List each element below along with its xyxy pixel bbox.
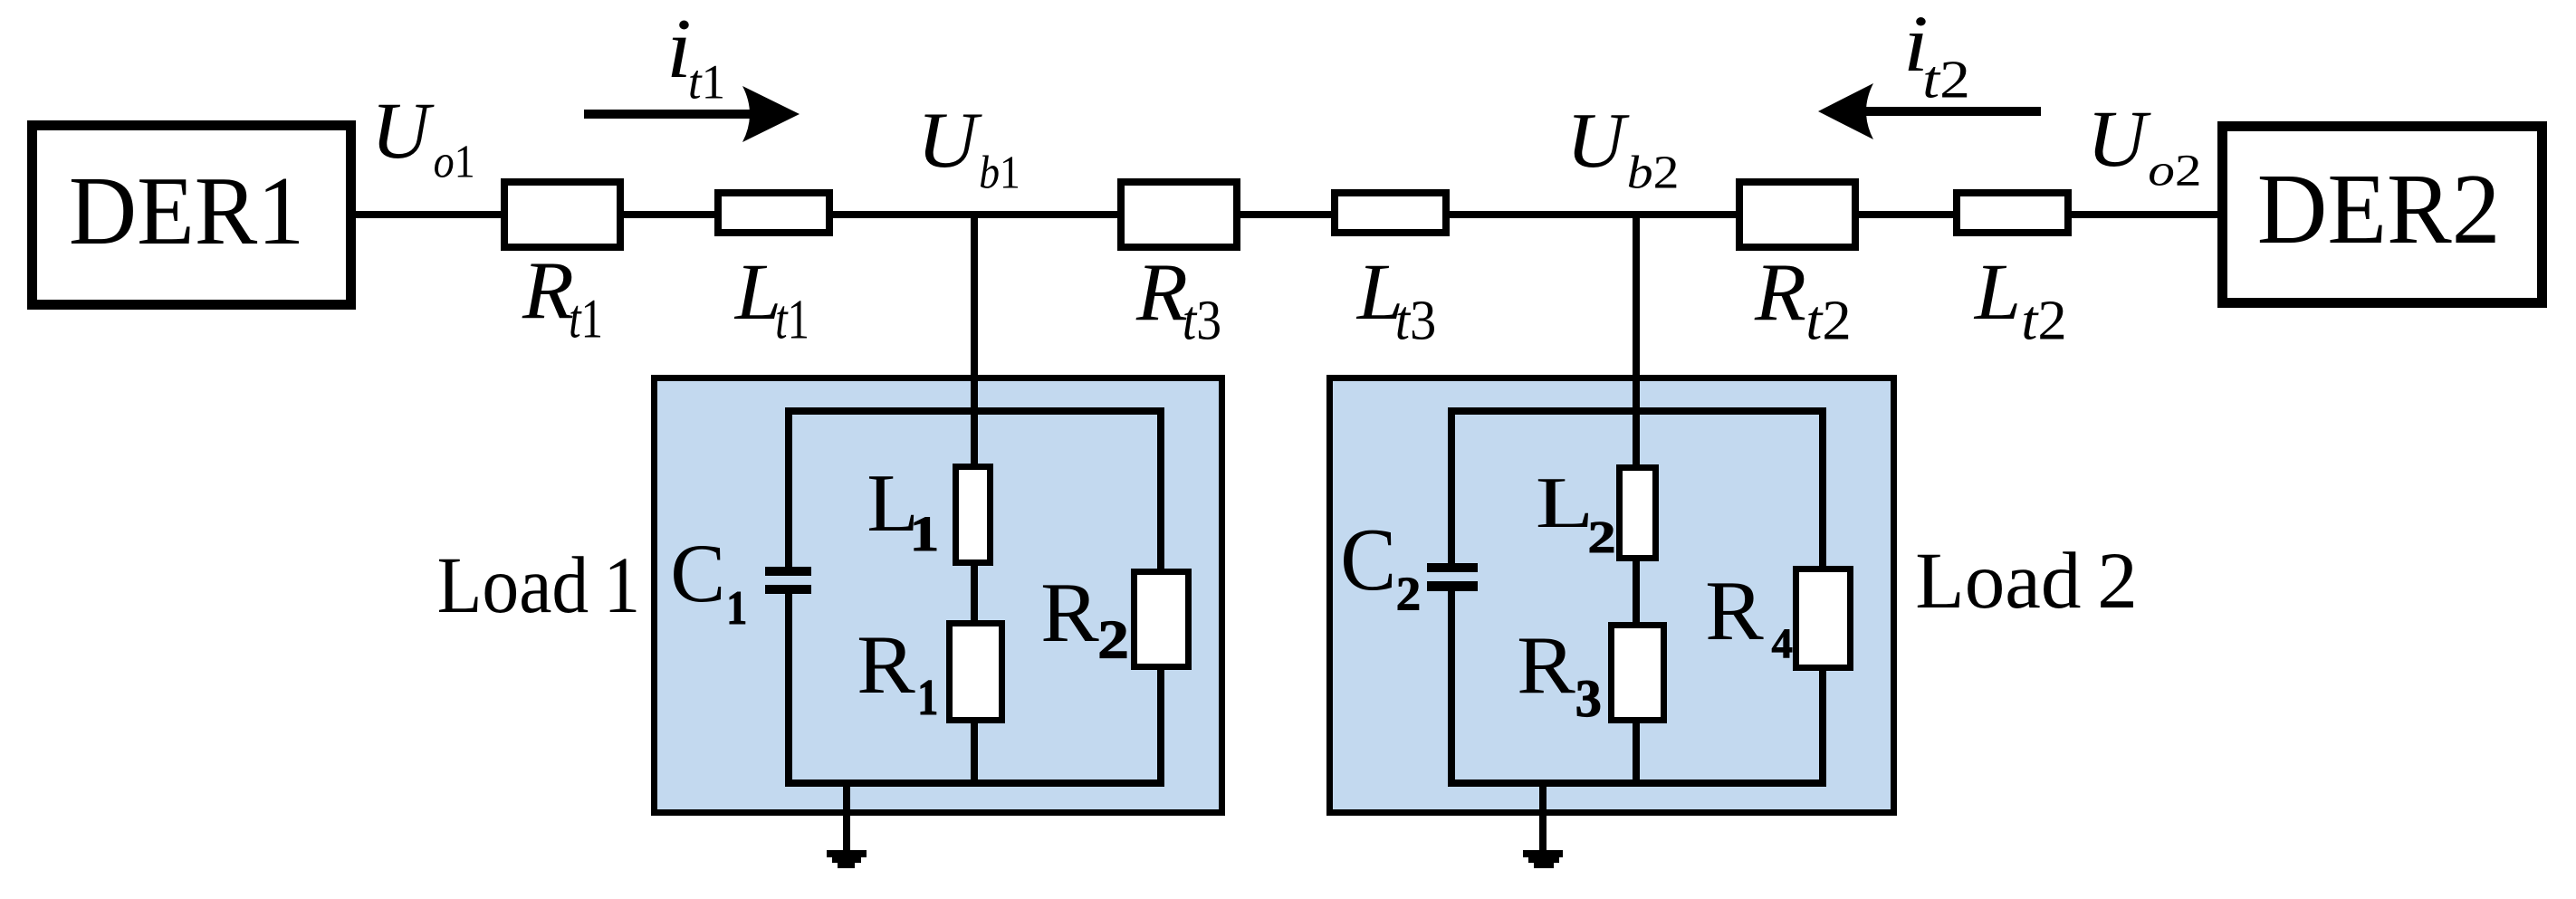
svg-text:U: U xyxy=(371,86,435,176)
wire Load1 left branch lower xyxy=(785,590,792,787)
svg-text:1: 1 xyxy=(917,670,938,726)
svg-text:Load 2: Load 2 xyxy=(1915,537,2138,626)
svg-text:4: 4 xyxy=(1772,621,1793,667)
wire Load2 right branch upper xyxy=(1819,407,1826,569)
svg-text:1: 1 xyxy=(910,507,939,561)
svg-text:2: 2 xyxy=(1588,512,1616,562)
svg-text:3: 3 xyxy=(1575,669,1602,728)
svg-text:R: R xyxy=(522,244,574,336)
svg-text:o2: o2 xyxy=(2148,145,2201,196)
inductor L2 xyxy=(1620,468,1656,559)
resistor Rt1 xyxy=(504,182,620,247)
wire node Ub2 down to Load2 xyxy=(1633,211,1640,468)
svg-text:DER2: DER2 xyxy=(2257,154,2501,265)
svg-text:t3: t3 xyxy=(1183,289,1221,351)
Load1 region box xyxy=(655,378,1222,813)
resistor R2 xyxy=(1135,572,1189,667)
wire Load2 left branch lower xyxy=(1448,587,1455,787)
svg-text:R: R xyxy=(857,619,915,711)
Load2 region box xyxy=(1330,378,1894,813)
svg-text:t2: t2 xyxy=(1922,49,1970,109)
svg-text:t2: t2 xyxy=(2021,289,2066,352)
wire Load2 ground stub xyxy=(1539,779,1547,852)
svg-text:2: 2 xyxy=(1396,567,1421,620)
svg-text:R: R xyxy=(1754,246,1806,338)
current arrow it2 xyxy=(1865,107,2041,116)
wire Load1 loop top xyxy=(785,407,1164,415)
svg-text:Load 1: Load 1 xyxy=(437,541,641,630)
svg-text:DER1: DER1 xyxy=(69,157,304,264)
svg-text:o1: o1 xyxy=(434,135,475,187)
wire Load1 right branch lower xyxy=(1157,666,1164,787)
capacitor C1 plates xyxy=(765,567,811,576)
wire Lt2 to DER2 xyxy=(2065,211,2223,218)
resistor R4 xyxy=(1796,569,1851,668)
svg-text:C: C xyxy=(1340,511,1396,609)
svg-text:C: C xyxy=(670,527,725,620)
inductor Lt2 xyxy=(1957,193,2068,233)
svg-text:R: R xyxy=(1705,563,1764,657)
wire Load2 left branch upper xyxy=(1448,407,1455,565)
resistor R3 xyxy=(1612,626,1664,721)
wire DER1 to Rt1 xyxy=(353,211,507,218)
wire L1 to R1 xyxy=(971,562,978,624)
wire node Ub1 down to Load1 xyxy=(971,211,978,467)
svg-text:L: L xyxy=(733,246,781,336)
svg-text:t1: t1 xyxy=(688,54,725,109)
svg-text:1: 1 xyxy=(726,581,747,635)
ground Load2 xyxy=(1523,850,1563,857)
svg-text:t3: t3 xyxy=(1395,290,1437,352)
wire Rt3 to Lt3 xyxy=(1235,211,1336,218)
svg-text:U: U xyxy=(917,95,983,184)
source DER2 box xyxy=(2223,127,2542,303)
wire Rt1 to Lt1 xyxy=(618,211,721,218)
svg-text:R: R xyxy=(1517,620,1575,712)
wire Load1 ground stub xyxy=(843,779,850,852)
svg-text:t1: t1 xyxy=(569,288,603,349)
svg-text:R: R xyxy=(1040,565,1099,659)
svg-text:b1: b1 xyxy=(979,147,1020,198)
capacitor C2 plates xyxy=(1427,563,1478,572)
inductor Lt1 xyxy=(718,193,829,233)
wire Lt3 to Rt2 through node Ub2 xyxy=(1445,211,1742,218)
wire Load2 right branch lower xyxy=(1819,667,1826,787)
resistor Rt2 xyxy=(1739,182,1855,247)
wire Load1 loop bottom xyxy=(785,779,1164,787)
svg-text:L: L xyxy=(1536,463,1594,543)
source DER1 box xyxy=(33,126,351,305)
wire R1 to loop bottom xyxy=(971,720,978,787)
svg-text:U: U xyxy=(1566,98,1630,185)
svg-text:L: L xyxy=(1973,246,2021,336)
resistor Rt3 xyxy=(1121,182,1237,247)
wire Load1 right branch upper xyxy=(1157,407,1164,572)
wire Lt1 to Rt3 through node Ub1 xyxy=(828,211,1123,218)
wire Load2 loop bottom xyxy=(1448,779,1826,787)
wire Load2 loop top xyxy=(1448,407,1826,415)
current arrow it1 xyxy=(584,110,759,119)
inductor Lt3 xyxy=(1335,193,1446,233)
wire Load1 left branch upper xyxy=(785,407,792,569)
ground Load1 xyxy=(827,850,867,857)
wire L2 to R3 xyxy=(1633,558,1640,626)
svg-text:b2: b2 xyxy=(1627,146,1680,197)
svg-text:R: R xyxy=(1135,246,1188,338)
resistor R1 xyxy=(950,624,1002,721)
wire Rt2 to Lt2 xyxy=(1853,211,1959,218)
inductor L1 xyxy=(956,467,991,563)
wire R3 to loop bottom xyxy=(1633,720,1640,787)
svg-text:2: 2 xyxy=(1097,609,1129,670)
svg-text:t2: t2 xyxy=(1805,289,1851,352)
svg-text:U: U xyxy=(2087,93,2152,184)
svg-text:t1: t1 xyxy=(775,289,809,351)
